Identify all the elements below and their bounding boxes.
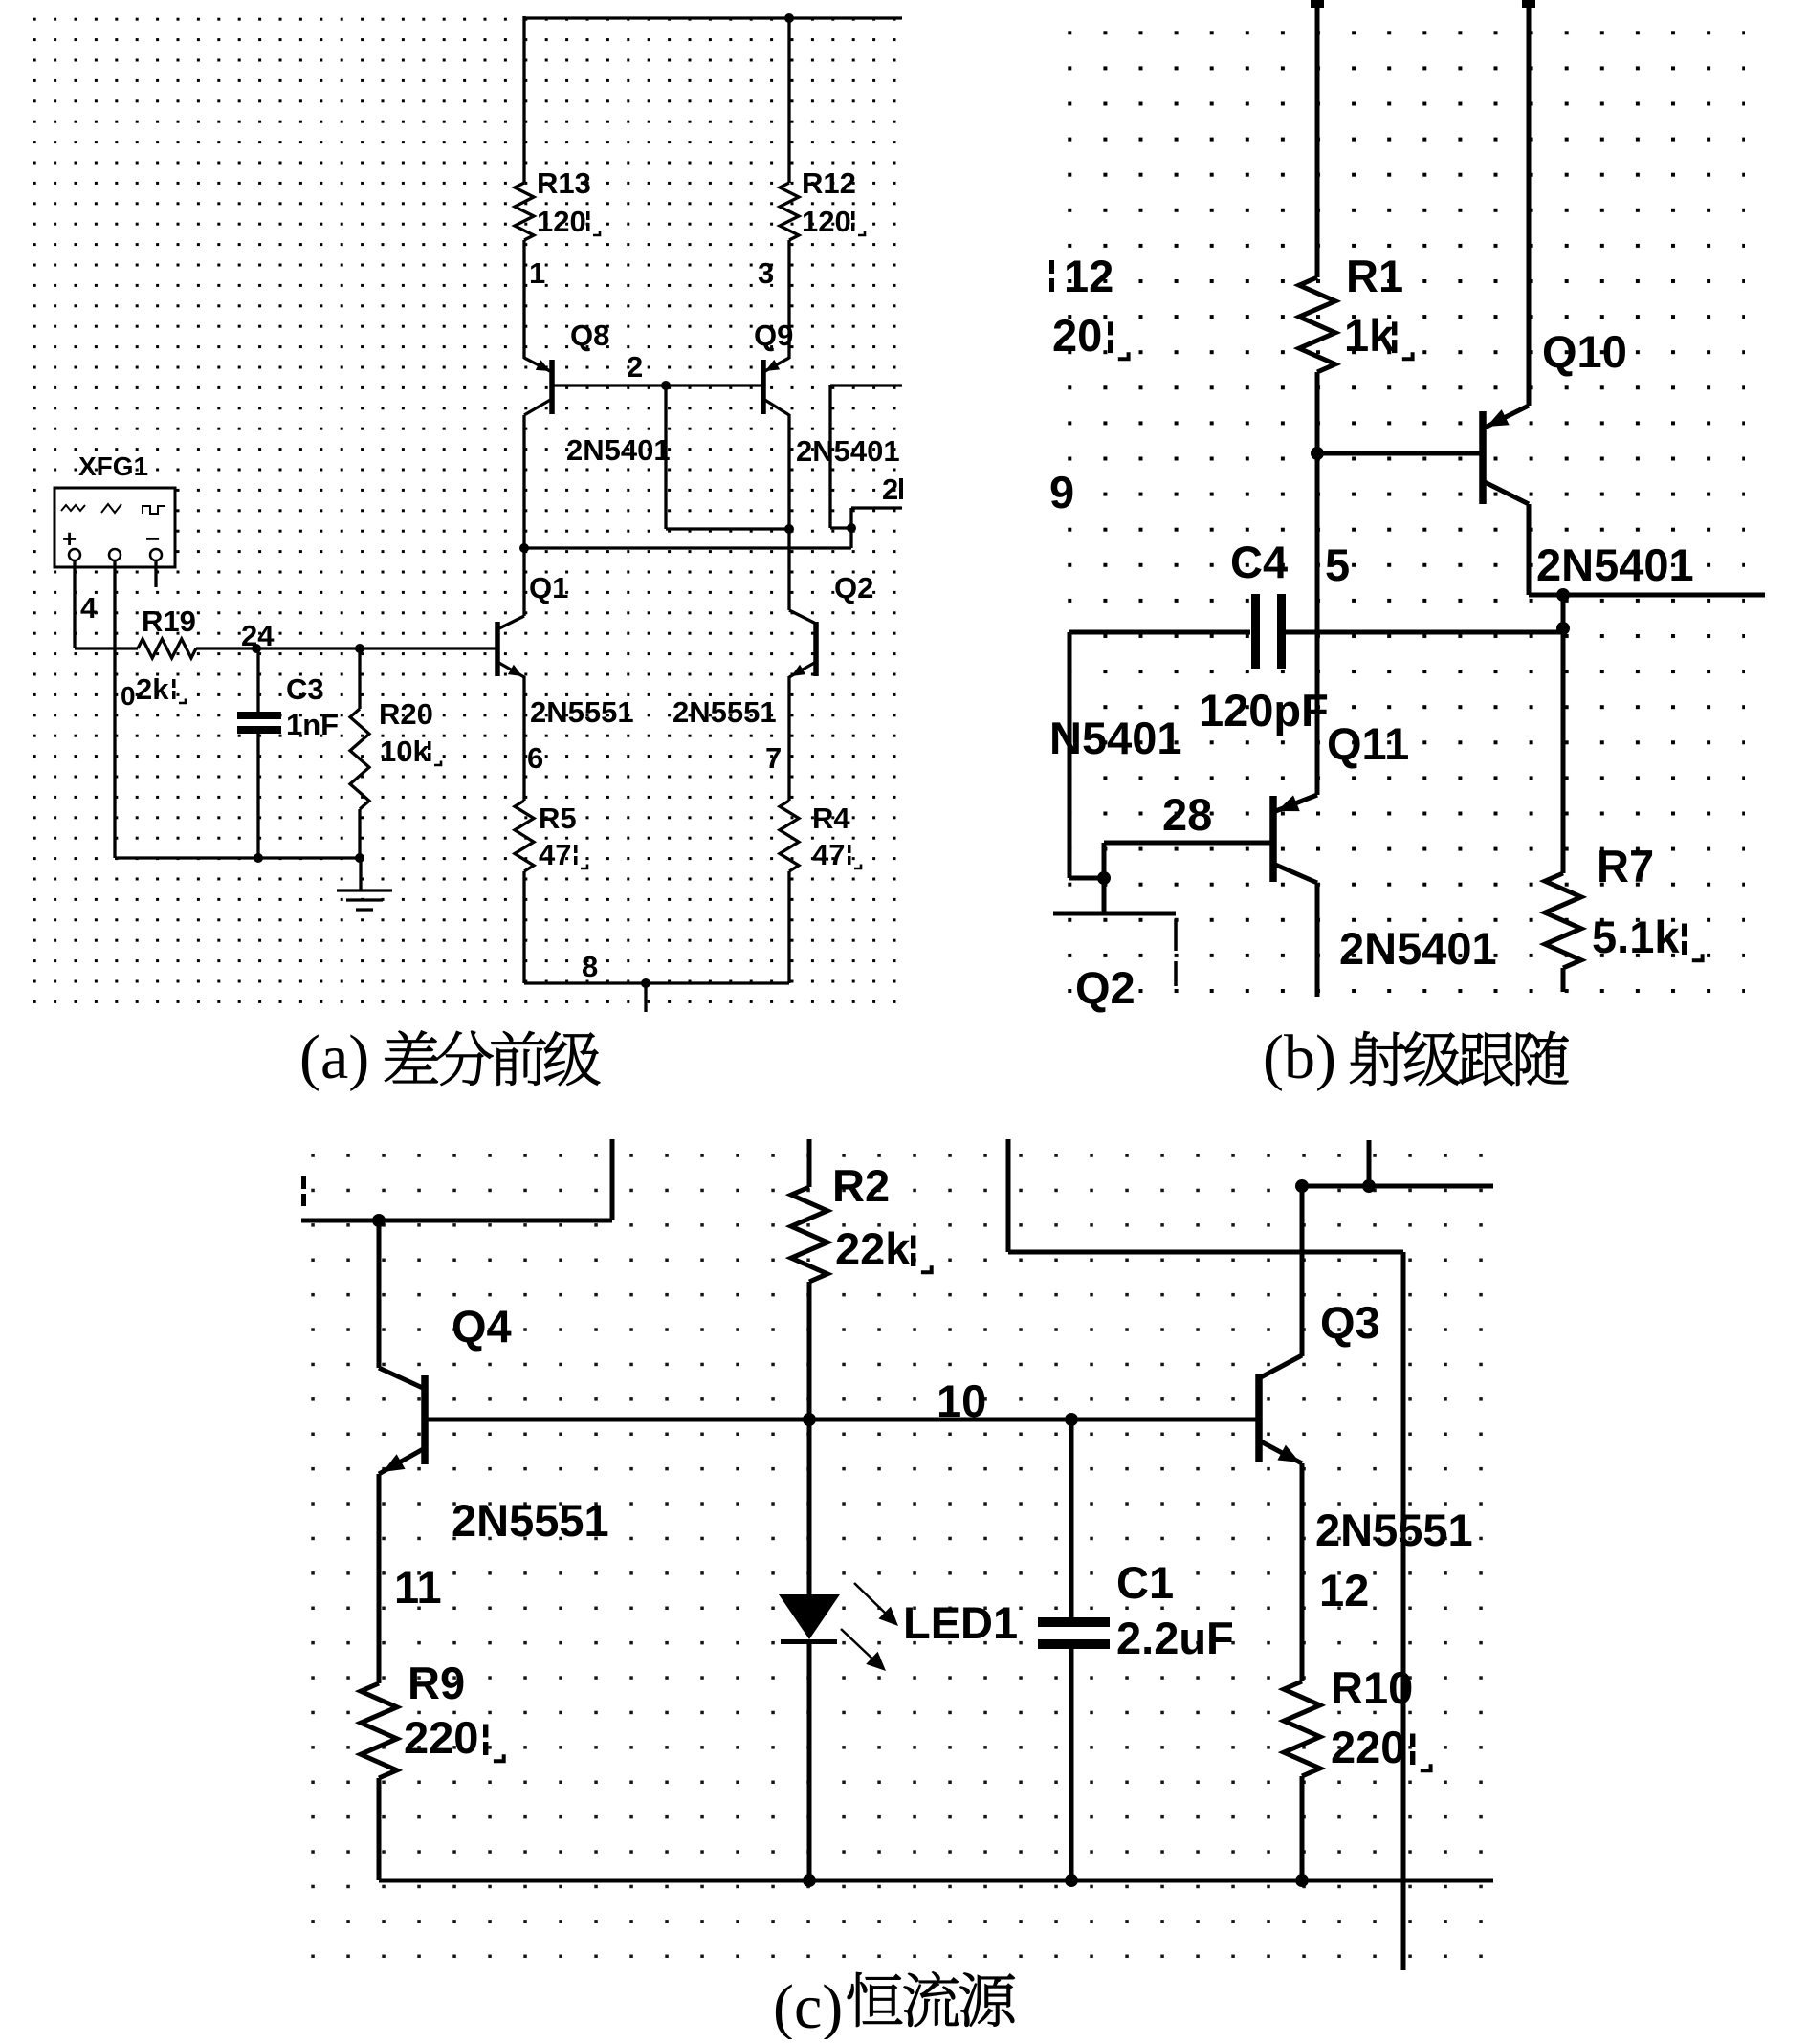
svg-text:120: 120 — [802, 205, 851, 238]
svg-text:Q11: Q11 — [1327, 718, 1409, 769]
svg-text:220: 220 — [404, 1712, 478, 1763]
wire R19 to Q1 base, node 24 — [196, 647, 497, 649]
svg-text:R19: R19 — [142, 604, 196, 638]
svg-text:2: 2 — [627, 350, 643, 384]
wire top right rail panel c — [1302, 1184, 1493, 1189]
svg-text:47: 47 — [812, 838, 845, 871]
svg-text:20: 20 — [1052, 310, 1102, 361]
diode LED1 — [779, 1594, 840, 1639]
svg-text:2N5551: 2N5551 — [672, 695, 777, 729]
wire right L path — [1006, 1139, 1011, 1252]
wire R12 top lead — [787, 16, 790, 183]
wire R13 top lead — [522, 16, 525, 183]
dot grid panel c — [306, 1149, 1485, 1961]
svg-text:Q8: Q8 — [570, 319, 609, 352]
wire left loop from C4 — [1068, 632, 1072, 878]
svg-text:Q1: Q1 — [529, 571, 568, 604]
svg-text:10k: 10k — [380, 735, 430, 768]
svg-text:1nF: 1nF — [286, 708, 339, 741]
wire Q10 base — [1317, 451, 1483, 456]
wire bottom node 8 — [522, 871, 525, 983]
svg-text:6: 6 — [527, 741, 543, 775]
resistor R9 — [361, 1683, 397, 1778]
wire R1 to node5/Q11 — [1315, 372, 1320, 795]
svg-text:47: 47 — [539, 838, 571, 871]
svg-text:1: 1 — [529, 256, 545, 290]
svg-text:220: 220 — [1331, 1722, 1405, 1772]
resistor R12 — [780, 183, 799, 240]
svg-text:(a): (a) — [299, 1022, 369, 1092]
resistor R19 — [138, 639, 196, 658]
svg-text:C3: C3 — [286, 672, 324, 706]
svg-text:12: 12 — [1319, 1565, 1369, 1615]
resistor R4 — [780, 801, 799, 871]
svg-text:R10: R10 — [1331, 1662, 1413, 1713]
wire XFG1 plus terminal to R19, node 4 — [73, 560, 76, 648]
svg-text:10: 10 — [937, 1375, 986, 1426]
wire Q4 base / node 10 rail — [425, 1418, 1259, 1422]
svg-text:R4: R4 — [812, 802, 850, 835]
svg-text:N5401: N5401 — [1049, 713, 1182, 763]
wire Q11 base, node 28 — [1104, 841, 1273, 846]
svg-text:120: 120 — [537, 205, 586, 238]
svg-text:XFG1: XFG1 — [78, 451, 148, 481]
node junction on top rail — [784, 13, 794, 23]
wire node 2 down-right jog — [664, 385, 667, 529]
svg-text:24: 24 — [241, 619, 275, 652]
wire Q4 emitter to R9 — [377, 1474, 382, 1683]
wire R2 to node 10 — [807, 1282, 812, 1419]
svg-text:5: 5 — [1325, 539, 1350, 590]
wire Q3 emitter to R10 — [1300, 1463, 1305, 1681]
resistor R5 — [515, 801, 534, 871]
wire R1 top lead — [1315, 0, 1320, 277]
capacitor C3 — [256, 648, 259, 712]
svg-text:LED1: LED1 — [903, 1597, 1018, 1648]
svg-text:2N5551: 2N5551 — [1315, 1505, 1473, 1555]
wire R7 branch vertical — [1561, 595, 1566, 873]
svg-text:C1: C1 — [1116, 1557, 1174, 1608]
svg-text:Q2: Q2 — [834, 571, 873, 604]
svg-text:Q3: Q3 — [1320, 1297, 1380, 1348]
svg-text:3: 3 — [758, 256, 774, 290]
ground symbol — [359, 858, 362, 890]
svg-text:2N5401: 2N5401 — [1339, 923, 1497, 974]
svg-text:(c): (c) — [773, 1972, 843, 2039]
resistor R20 — [358, 648, 361, 709]
wire Q9 collector to Q2 collector — [787, 414, 790, 610]
wire XFG1 minus stub — [154, 560, 157, 587]
wire right stub at y=403 — [830, 384, 902, 386]
partial node 8 glyph at crop edge — [301, 1176, 306, 1189]
svg-text:R2: R2 — [832, 1160, 890, 1211]
svg-text:120pF: 120pF — [1199, 685, 1329, 736]
wire XFG1 mid terminal down — [113, 560, 116, 858]
wire node 3 (R12 to Q9 emitter) — [787, 240, 790, 359]
svg-text:9: 9 — [1049, 467, 1074, 517]
svg-text:(b): (b) — [1263, 1022, 1336, 1092]
svg-text:R12: R12 — [802, 166, 856, 200]
svg-text:2N5401: 2N5401 — [796, 434, 900, 468]
wire top rail panel a — [524, 16, 902, 19]
svg-text:2: 2 — [882, 473, 898, 506]
wire Q8 collector to Q1 collector — [522, 415, 525, 616]
svg-text:C4: C4 — [1230, 537, 1288, 587]
resistor R7 — [1545, 873, 1581, 968]
svg-text:Q9: Q9 — [754, 319, 793, 352]
wire Q4 collector riser — [377, 1220, 382, 1368]
wire top left rail panel c — [301, 1219, 612, 1223]
wire node 6 (Q1 emitter to R5) — [522, 676, 525, 801]
svg-text:R5: R5 — [539, 802, 577, 835]
cut junction nub at top of R1 wire — [1311, 0, 1324, 8]
svg-text:7: 7 — [765, 741, 782, 775]
svg-text:12: 12 — [1064, 251, 1113, 301]
wire bottom rail panel c — [379, 1879, 1493, 1883]
svg-text:22k: 22k — [835, 1223, 911, 1274]
wire node10 to LED — [807, 1419, 812, 1594]
svg-text:R1: R1 — [1346, 251, 1403, 301]
wire node 1 (R13 to Q8 emitter) — [522, 240, 525, 359]
svg-text:4: 4 — [80, 591, 98, 625]
svg-text:0: 0 — [121, 681, 136, 711]
resistor R10 — [1284, 1681, 1320, 1776]
wire node 7 (Q2 emitter to R4) — [787, 676, 790, 801]
svg-text:R20: R20 — [379, 697, 433, 731]
svg-text:2N5551: 2N5551 — [452, 1495, 609, 1546]
partial label R12 at crop edge (panel b) — [1049, 260, 1054, 274]
svg-text:28: 28 — [1162, 789, 1212, 840]
dot grid panel b — [1063, 27, 1745, 997]
svg-text:2N5551: 2N5551 — [530, 695, 634, 729]
wire partial Q2 base (crop) — [1053, 912, 1176, 916]
svg-text:2N5401: 2N5401 — [1536, 539, 1694, 590]
svg-text:Q10: Q10 — [1542, 326, 1627, 377]
svg-text:Q2: Q2 — [1075, 962, 1136, 1013]
svg-text:R9: R9 — [408, 1658, 465, 1708]
wire Q8-Q9 base link, node 2 — [552, 384, 763, 386]
svg-text:2N5401: 2N5401 — [566, 433, 671, 467]
svg-text:R13: R13 — [537, 166, 591, 200]
resistor R1 — [1299, 277, 1335, 372]
svg-text:8: 8 — [582, 950, 598, 983]
svg-text:Q4: Q4 — [452, 1301, 512, 1352]
wire Q10 emitter to top — [1527, 0, 1532, 406]
svg-text:5.1k: 5.1k — [1592, 912, 1680, 962]
svg-text:1k: 1k — [1344, 310, 1395, 361]
svg-text:11: 11 — [394, 1562, 442, 1613]
resistor R2 — [807, 1139, 812, 1187]
resistor R13 — [515, 183, 534, 240]
capacitor C1 — [1069, 1419, 1074, 1617]
wire collector cross link y=573 — [849, 528, 852, 548]
dot grid panel a — [29, 13, 901, 1006]
LED arrows — [854, 1583, 890, 1617]
svg-text:2.2uF: 2.2uF — [1116, 1613, 1234, 1663]
wire right stub step y=531 — [851, 506, 902, 509]
wire Q11 collector down — [1315, 883, 1320, 997]
wire Q3 collector up — [1300, 1186, 1305, 1356]
wire Q10 collector down and right — [1527, 504, 1532, 595]
svg-text:R7: R7 — [1597, 841, 1654, 891]
svg-text:2k: 2k — [136, 672, 169, 706]
